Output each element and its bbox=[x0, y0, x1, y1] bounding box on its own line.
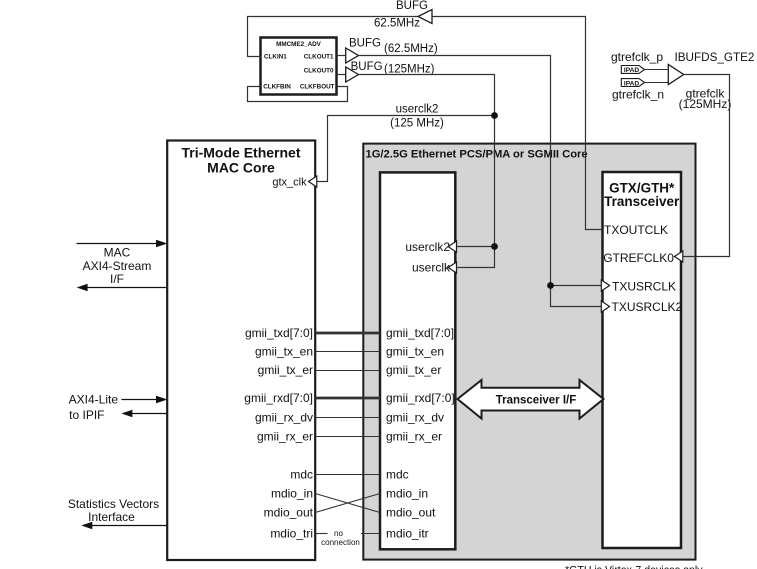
PCS-side signal labels bbox=[386, 326, 455, 541]
svg-text:CLKOUT1: CLKOUT1 bbox=[304, 53, 334, 60]
svg-text:no: no bbox=[334, 529, 343, 538]
IPAD gtrefclk_n bbox=[612, 79, 668, 102]
svg-text:CLKFBOUT: CLKFBOUT bbox=[300, 83, 335, 90]
svg-text:mdio_in: mdio_in bbox=[386, 487, 428, 501]
svg-text:MAC Core: MAC Core bbox=[207, 159, 275, 175]
svg-text:Transceiver: Transceiver bbox=[604, 194, 680, 209]
junction dot userclk2/gtx_clk bbox=[491, 112, 498, 119]
buffer BUFG (125MHz, right-pointing) bbox=[346, 67, 359, 82]
svg-text:IBUFDS_GTE2: IBUFDS_GTE2 bbox=[675, 51, 755, 64]
svg-text:mdio_out: mdio_out bbox=[386, 506, 436, 520]
arrow Statistics out bbox=[92, 525, 167, 527]
svg-text:TXOUTCLK: TXOUTCLK bbox=[604, 223, 668, 237]
svg-text:IPAD: IPAD bbox=[624, 80, 640, 87]
svg-text:TXUSRCLK: TXUSRCLK bbox=[612, 280, 676, 294]
svg-text:(125MHz): (125MHz) bbox=[384, 64, 435, 76]
svg-text:AXI4-Lite: AXI4-Lite bbox=[69, 392, 119, 406]
MAC left interface arrows bbox=[77, 240, 168, 291]
svg-text:(125MHz): (125MHz) bbox=[679, 97, 732, 111]
svg-text:gmii_tx_en: gmii_tx_en bbox=[255, 345, 313, 359]
MMCME2_ADV box bbox=[261, 38, 337, 95]
buffer IBUFDS_GTE2 bbox=[668, 65, 683, 85]
svg-text:Interface: Interface bbox=[88, 510, 135, 524]
wire gmii_tx_er bbox=[315, 370, 380, 372]
svg-text:gtrefclk_p: gtrefclk_p bbox=[611, 50, 663, 64]
svg-text:to IPIF: to IPIF bbox=[69, 408, 104, 422]
svg-text:62.5MHz: 62.5MHz bbox=[374, 18, 420, 30]
wire gmii_rx_er bbox=[315, 436, 380, 438]
svg-text:BUFG: BUFG bbox=[351, 61, 383, 73]
buffer BUFG (62.5MHz, right-pointing) bbox=[346, 48, 359, 63]
arrow MAC AXI4-Stream in bbox=[77, 243, 157, 245]
svg-text:MMCME2_ADV: MMCME2_ADV bbox=[276, 41, 322, 48]
svg-text:BUFG: BUFG bbox=[396, 0, 428, 12]
junction dot TXUSRCLK bbox=[547, 282, 554, 289]
svg-text:userclk2: userclk2 bbox=[396, 103, 439, 115]
wire TXOUTCLK to top BUFG to CLKIN1 bbox=[432, 17, 603, 230]
GTX/GTH transceiver box bbox=[603, 172, 682, 548]
svg-text:mdio_itr: mdio_itr bbox=[386, 527, 429, 541]
svg-text:(62.5MHz): (62.5MHz) bbox=[384, 43, 438, 55]
svg-text:gmii_tx_en: gmii_tx_en bbox=[386, 345, 444, 359]
gmii signal wires MAC to PCS bbox=[315, 333, 380, 534]
wire CLKOUT0 to BUFG bbox=[337, 74, 346, 76]
svg-text:mdio_tri: mdio_tri bbox=[270, 527, 313, 541]
Transceiver I/F double arrow bbox=[458, 380, 604, 419]
svg-text:(125 MHz): (125 MHz) bbox=[390, 117, 444, 129]
wire BUFG 125 output down to userclk2/userclk bbox=[359, 75, 495, 268]
svg-text:gmii_rx_er: gmii_rx_er bbox=[386, 430, 442, 444]
svg-text:connection: connection bbox=[321, 538, 360, 547]
svg-text:gmii_rx_dv: gmii_rx_dv bbox=[255, 411, 313, 425]
svg-text:*GTH is Virtex-7 devices only: *GTH is Virtex-7 devices only bbox=[565, 565, 703, 569]
svg-text:gtrefclk_n: gtrefclk_n bbox=[612, 88, 664, 102]
svg-text:GTREFCLK0: GTREFCLK0 bbox=[603, 251, 674, 265]
wire mdio_out to mdio_in (crossing) bbox=[315, 494, 380, 513]
svg-text:CLKIN1: CLKIN1 bbox=[264, 53, 287, 60]
wire gmii_rxd[7:0] (bus) bbox=[315, 397, 380, 400]
svg-text:gmii_rxd[7:0]: gmii_rxd[7:0] bbox=[244, 391, 313, 405]
svg-text:mdio_in: mdio_in bbox=[271, 487, 313, 501]
wire gmii_rx_dv bbox=[315, 417, 380, 419]
wire mdio_itr stub bbox=[361, 533, 380, 535]
svg-text:IPAD: IPAD bbox=[624, 67, 640, 74]
svg-text:mdc: mdc bbox=[386, 468, 409, 482]
IPAD gtrefclk_p bbox=[611, 50, 668, 74]
svg-text:BUFG: BUFG bbox=[349, 38, 381, 50]
svg-text:gmii_rx_dv: gmii_rx_dv bbox=[386, 411, 444, 425]
svg-text:Statistics Vectors: Statistics Vectors bbox=[68, 497, 159, 511]
svg-text:userclk2: userclk2 bbox=[405, 240, 450, 254]
wire BUFG 62.5 output to TXUSRCLK/TXUSRCLK2 bbox=[359, 56, 603, 307]
svg-text:gmii_tx_er: gmii_tx_er bbox=[386, 363, 441, 377]
svg-text:gmii_rx_er: gmii_rx_er bbox=[257, 430, 313, 444]
svg-text:AXI4-Stream: AXI4-Stream bbox=[83, 259, 152, 273]
svg-text:I/F: I/F bbox=[110, 272, 124, 286]
svg-text:1G/2.5G Ethernet PCS/PMA or SG: 1G/2.5G Ethernet PCS/PMA or SGMII Core bbox=[366, 149, 588, 161]
wire gmii_tx_en bbox=[315, 351, 380, 353]
svg-text:gmii_rxd[7:0]: gmii_rxd[7:0] bbox=[386, 391, 455, 405]
svg-text:MAC: MAC bbox=[104, 246, 131, 260]
svg-text:mdio_out: mdio_out bbox=[264, 506, 314, 520]
svg-text:mdc: mdc bbox=[290, 468, 313, 482]
junction dot userclk2 bbox=[491, 243, 498, 250]
buffer BUFG (top, 62.5MHz, left-pointing) bbox=[418, 10, 432, 24]
GTX ports bbox=[601, 223, 683, 314]
wire userclk2 branch to gtx_clk bbox=[315, 116, 494, 182]
svg-text:CLKFBIN: CLKFBIN bbox=[263, 83, 291, 90]
svg-text:gmii_txd[7:0]: gmii_txd[7:0] bbox=[245, 326, 313, 340]
wire mdc bbox=[315, 474, 380, 476]
MMCM feedback loop CLKFBOUT to CLKFBIN bbox=[248, 87, 348, 102]
wire mdio_in to mdio_out (crossing) bbox=[315, 494, 380, 513]
svg-text:TXUSRCLK2: TXUSRCLK2 bbox=[612, 300, 683, 314]
wire CLKOUT1 to BUFG bbox=[337, 55, 346, 57]
svg-text:Transceiver I/F: Transceiver I/F bbox=[496, 394, 577, 406]
svg-text:gmii_tx_er: gmii_tx_er bbox=[258, 363, 313, 377]
Tri-Mode Ethernet MAC Core box bbox=[167, 141, 315, 561]
svg-text:CLKOUT0: CLKOUT0 bbox=[304, 68, 334, 75]
wire IBUFDS output to GTREFCLK0 bbox=[681, 75, 730, 257]
svg-text:Tri-Mode Ethernet: Tri-Mode Ethernet bbox=[181, 145, 300, 161]
svg-text:gmii_txd[7:0]: gmii_txd[7:0] bbox=[386, 326, 454, 340]
inner PCS/PMA sub-block bbox=[380, 172, 455, 549]
inner box ports userclk2 / userclk bbox=[405, 240, 456, 275]
PCS/PMA gray core box bbox=[363, 144, 695, 560]
wire gmii_txd[7:0] (bus) bbox=[315, 332, 380, 335]
svg-text:userclk: userclk bbox=[412, 261, 451, 275]
MAC-side signal labels bbox=[244, 326, 313, 541]
wire mdio_tri stub bbox=[315, 533, 327, 535]
arrow MAC AXI4-Stream out bbox=[87, 287, 167, 289]
svg-text:gtx_clk: gtx_clk bbox=[272, 176, 307, 188]
